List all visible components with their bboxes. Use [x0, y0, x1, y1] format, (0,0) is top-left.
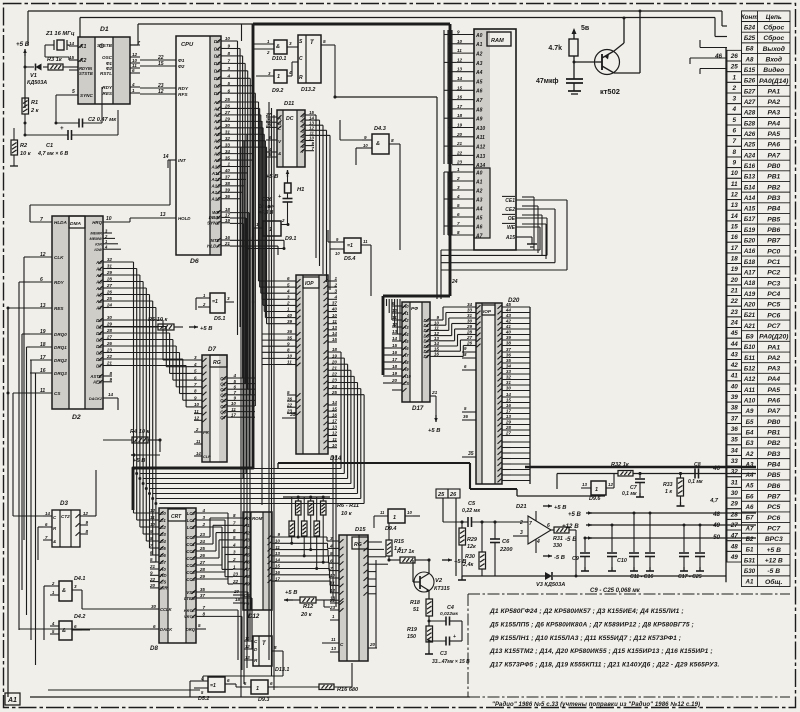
svg-text:31: 31 — [506, 380, 512, 385]
svg-text:29: 29 — [730, 501, 739, 508]
node junction y97 — [334, 96, 337, 99]
IC D2 DMA controller — [52, 216, 103, 409]
svg-text:РВ5: РВ5 — [767, 472, 780, 479]
svg-text:R2: R2 — [20, 143, 28, 149]
svg-text:РА0(Д20): РА0(Д20) — [759, 334, 789, 341]
thick bus to D17 — [383, 295, 450, 298]
svg-text:4: 4 — [226, 73, 230, 78]
flip-flop D13.1 — [253, 636, 272, 666]
wire D5.4 inputs — [328, 241, 335, 243]
svg-text:КТ315: КТ315 — [434, 586, 451, 592]
svg-text:39: 39 — [731, 394, 739, 401]
svg-text:36: 36 — [463, 414, 468, 419]
svg-text:42: 42 — [505, 319, 512, 324]
svg-text:28: 28 — [505, 425, 512, 430]
flip-flop D13.2 — [298, 35, 321, 83]
D20 to bus stubs — [511, 306, 530, 308]
svg-text:Д5 К155ЛП5 ; Д6 КР580ИК80А: Д5 К155ЛП5 ; Д6 КР580ИК80А ; Д7 К589ИР12… — [489, 621, 694, 628]
svg-text:5: 5 — [227, 81, 230, 86]
svg-text:T: T — [262, 641, 267, 647]
svg-text:А20: А20 — [743, 302, 756, 309]
svg-text:23: 23 — [331, 378, 338, 383]
IC D3 counter — [52, 510, 80, 547]
bus D14 portB to D8 horizontals — [137, 468, 341, 470]
svg-text:А8: А8 — [745, 56, 754, 63]
svg-text:12: 12 — [158, 89, 164, 95]
svg-text:А5: А5 — [745, 483, 754, 490]
svg-text:6: 6 — [233, 384, 236, 389]
svg-text:36: 36 — [731, 426, 739, 433]
svg-text:Выход: Выход — [763, 45, 785, 53]
svg-text:А6: А6 — [745, 504, 754, 511]
svg-text:D1: D1 — [100, 26, 109, 33]
svg-text:+12 В: +12 В — [765, 557, 783, 564]
svg-text:12: 12 — [731, 192, 739, 199]
D2 DACK2 pin — [103, 397, 118, 399]
svg-text:Б21: Б21 — [744, 312, 756, 319]
wire top rail 2 — [80, 17, 715, 19]
svg-text:ROM: ROM — [252, 516, 263, 521]
svg-text:13: 13 — [275, 551, 281, 556]
svg-text:HOLD: HOLD — [178, 216, 191, 221]
svg-text:А21: А21 — [743, 323, 756, 330]
svg-text:39: 39 — [225, 188, 231, 193]
svg-text:CE2: CE2 — [505, 207, 515, 213]
svg-text:5: 5 — [287, 282, 290, 287]
svg-text:+5 В: +5 В — [767, 547, 781, 554]
D7 extra pins — [194, 431, 202, 433]
svg-text:А7: А7 — [745, 525, 754, 532]
svg-text:RSTL: RSTL — [100, 71, 112, 76]
D20 right pins portC — [502, 396, 511, 398]
svg-text:51: 51 — [413, 607, 419, 613]
svg-text:24: 24 — [106, 303, 113, 308]
parts list box — [468, 594, 790, 697]
svg-text:Видео: Видео — [763, 66, 784, 74]
svg-text:21: 21 — [331, 366, 338, 371]
wire gates chain bottom — [225, 683, 236, 685]
capacitor 47uF — [566, 78, 583, 80]
bus D17 to D20 wires — [439, 319, 443, 321]
capacitor C1 — [67, 130, 69, 140]
svg-text:РС5: РС5 — [767, 504, 780, 511]
svg-text:Б16: Б16 — [744, 163, 756, 170]
bus CPU data verticals — [230, 40, 238, 42]
svg-text:11: 11 — [332, 437, 337, 442]
svg-text:РВ2: РВ2 — [767, 184, 780, 191]
wire D4.2 to D8 — [72, 629, 90, 631]
svg-text:Б13: Б13 — [744, 174, 756, 181]
wires D14 to D15 verticals — [332, 455, 334, 600]
wire DACK2 route — [117, 398, 119, 410]
svg-text:35: 35 — [290, 412, 296, 418]
resistor R5 — [158, 324, 174, 330]
svg-text:Б27: Б27 — [744, 88, 756, 95]
svg-text:D4.1: D4.1 — [74, 576, 85, 582]
IC D12 character ROM — [243, 512, 272, 610]
svg-text:43: 43 — [730, 351, 739, 358]
svg-text:D15: D15 — [355, 527, 366, 533]
decoder D11 — [277, 110, 305, 167]
svg-text:R18: R18 — [410, 600, 420, 606]
svg-text:40: 40 — [331, 307, 338, 312]
svg-text:30: 30 — [506, 386, 512, 391]
svg-text:22: 22 — [331, 372, 338, 377]
resistor R3 — [48, 64, 63, 70]
svg-text:16: 16 — [392, 350, 398, 355]
svg-text:РА7: РА7 — [767, 408, 780, 415]
svg-text:42: 42 — [730, 362, 739, 369]
capacitor C10 — [611, 525, 613, 552]
svg-text:14: 14 — [332, 331, 338, 336]
svg-text:Б24: Б24 — [744, 24, 756, 31]
svg-text:18: 18 — [40, 342, 46, 348]
svg-text:РА6: РА6 — [767, 398, 780, 405]
gate D5.1 — [210, 293, 225, 313]
D17 left pins — [392, 305, 402, 307]
svg-text:3: 3 — [233, 550, 236, 555]
bus D17 left lower feed — [383, 347, 392, 349]
svg-text:R16 680: R16 680 — [337, 687, 359, 693]
svg-text:1: 1 — [334, 276, 337, 281]
svg-text:D13.1: D13.1 — [275, 667, 289, 673]
svg-text:РА5: РА5 — [767, 131, 780, 138]
svg-text:А2: А2 — [745, 451, 754, 458]
svg-text:S: S — [299, 39, 303, 45]
resistor R19 — [426, 626, 433, 642]
svg-text:10 к: 10 к — [341, 511, 353, 517]
resistor R31 — [554, 527, 569, 533]
svg-text:C10: C10 — [617, 558, 627, 564]
svg-text:8: 8 — [233, 513, 236, 518]
svg-text:11: 11 — [275, 545, 280, 550]
svg-text:15: 15 — [69, 55, 75, 60]
svg-text:14: 14 — [196, 451, 201, 456]
D2 right pins HRQ — [103, 221, 130, 223]
svg-text:RDY: RDY — [178, 86, 189, 92]
bottom rail 2 — [48, 689, 200, 691]
svg-text:31: 31 — [107, 264, 113, 269]
svg-text:1: 1 — [393, 515, 396, 521]
wire D9.4 output down — [413, 515, 420, 517]
svg-text:330: 330 — [553, 543, 562, 549]
svg-text:39: 39 — [287, 319, 293, 324]
svg-text:R15: R15 — [394, 539, 405, 545]
svg-text:22: 22 — [106, 354, 113, 359]
svg-text:35: 35 — [506, 358, 512, 363]
svg-text:5: 5 — [464, 406, 467, 411]
capacitor C6 — [490, 538, 500, 540]
svg-text:1: 1 — [595, 487, 598, 493]
wire D8 DACK from left — [19, 628, 150, 630]
svg-text:36: 36 — [287, 396, 293, 401]
svg-text:38: 38 — [506, 341, 512, 346]
bus D14 ctrl feed horizontals — [262, 333, 287, 335]
svg-text:3: 3 — [268, 71, 271, 76]
left rail verticals — [7, 308, 9, 697]
D12 CS pin — [233, 594, 243, 596]
svg-text:РА1: РА1 — [767, 88, 780, 95]
capacitors C17-C25 — [683, 525, 685, 552]
svg-text:2: 2 — [195, 427, 199, 432]
svg-text:36: 36 — [225, 194, 231, 199]
D14 left pins data — [287, 280, 296, 282]
svg-text:C3: C3 — [440, 651, 447, 657]
svg-text:1: 1 — [732, 74, 736, 81]
bus RAM lower feed — [444, 171, 456, 173]
svg-text:С9 - С25 0,068 мк: С9 - С25 0,068 мк — [590, 588, 641, 594]
svg-text:РВ3: РВ3 — [767, 195, 780, 202]
svg-text:+: + — [60, 126, 64, 132]
power +5V R17 — [442, 559, 452, 561]
diode V3 — [545, 572, 552, 580]
svg-text:D5.4: D5.4 — [344, 256, 355, 262]
svg-text:6: 6 — [227, 678, 230, 683]
svg-text:45: 45 — [505, 302, 512, 307]
svg-text:7: 7 — [227, 59, 230, 64]
svg-text:3: 3 — [227, 66, 230, 71]
svg-text:13: 13 — [332, 325, 338, 330]
svg-text:11: 11 — [380, 510, 385, 515]
svg-text:РА4: РА4 — [767, 376, 780, 383]
svg-text:4,7 мк × 6 В: 4,7 мк × 6 В — [37, 151, 68, 157]
svg-text:20: 20 — [149, 583, 156, 588]
CPU left pins — [140, 59, 176, 61]
svg-text:0,1 мк: 0,1 мк — [622, 491, 637, 497]
svg-text:12к: 12к — [467, 544, 476, 550]
D20 lower pins — [502, 441, 511, 443]
pullup resistor taps — [297, 515, 299, 537]
svg-text:C9: C9 — [572, 556, 579, 562]
svg-text:9: 9 — [464, 346, 467, 351]
RAM CE nested wires — [516, 199, 567, 201]
D2 A0-A7 pins — [103, 261, 112, 263]
svg-text:РВ7: РВ7 — [767, 494, 780, 501]
svg-text:РА0(Д14): РА0(Д14) — [759, 78, 789, 85]
svg-text:11: 11 — [457, 48, 462, 53]
svg-text:+5 В: +5 В — [568, 512, 582, 518]
svg-text:29: 29 — [106, 270, 113, 275]
svg-text:25: 25 — [106, 296, 113, 301]
svg-text:C: C — [254, 639, 258, 644]
svg-text:12: 12 — [245, 644, 250, 649]
svg-text:2 к: 2 к — [30, 108, 40, 114]
svg-text:+5 В: +5 В — [285, 590, 297, 596]
svg-text:23: 23 — [329, 605, 336, 610]
svg-text:7: 7 — [732, 138, 736, 145]
svg-text:12: 12 — [40, 252, 46, 258]
svg-text:D10.1: D10.1 — [272, 56, 286, 62]
svg-text:30: 30 — [467, 319, 473, 324]
bus D2 to D8 verticals — [112, 261, 134, 263]
gate D4.3 — [372, 134, 389, 154]
svg-text:17: 17 — [392, 357, 398, 362]
svg-text:6: 6 — [233, 528, 236, 533]
svg-text:10: 10 — [457, 39, 463, 44]
svg-text:А12: А12 — [743, 376, 756, 383]
connector pin number boxes — [727, 50, 742, 562]
svg-text:РС1: РС1 — [767, 259, 780, 266]
svg-text:2: 2 — [731, 85, 736, 92]
svg-text:35: 35 — [287, 335, 293, 340]
svg-text:37: 37 — [332, 301, 338, 306]
svg-text:36: 36 — [287, 329, 293, 334]
svg-text:РВ5: РВ5 — [767, 216, 780, 223]
svg-text:R17 1к: R17 1к — [397, 549, 414, 555]
svg-text:6: 6 — [457, 212, 460, 217]
svg-text:17: 17 — [231, 412, 237, 417]
wire video 25 — [442, 498, 444, 522]
svg-text:С17 - С25: С17 - С25 — [678, 574, 702, 580]
svg-text:33: 33 — [467, 308, 473, 313]
wire D9.4 input from D15 — [374, 515, 379, 517]
svg-text:РС5: РС5 — [767, 302, 780, 309]
capacitor C3 — [445, 637, 447, 646]
svg-text:1 к: 1 к — [665, 489, 672, 495]
svg-text:35: 35 — [731, 437, 739, 444]
svg-text:33: 33 — [506, 369, 512, 374]
svg-text:24: 24 — [730, 319, 739, 326]
svg-text:А26: А26 — [743, 131, 756, 138]
heavy wire row 33 area — [278, 462, 470, 464]
svg-text:38: 38 — [225, 181, 231, 186]
svg-text:R: R — [53, 526, 57, 531]
svg-text:4: 4 — [536, 539, 540, 545]
bus CPU address verticals — [230, 101, 259, 103]
svg-text:Д9 К155ЛН1 ; Д10 К155ЛА3 ;: Д9 К155ЛН1 ; Д10 К155ЛА3 ; Д11 К555ИД7 ;… — [489, 635, 681, 642]
svg-text:48: 48 — [712, 511, 720, 518]
capacitor C8 — [694, 469, 696, 479]
svg-text:C6: C6 — [502, 539, 510, 545]
svg-text:25: 25 — [331, 390, 338, 395]
svg-text:14: 14 — [69, 41, 75, 46]
svg-text:+5 В: +5 В — [554, 505, 566, 511]
svg-text:6: 6 — [547, 523, 550, 529]
power +5V R12 — [284, 599, 293, 601]
svg-text:Б11: Б11 — [744, 355, 755, 362]
svg-text:14: 14 — [108, 392, 114, 397]
svg-text:22: 22 — [456, 150, 463, 155]
svg-text:+5 В: +5 В — [428, 428, 440, 434]
svg-text:А18: А18 — [743, 280, 756, 287]
svg-text:11: 11 — [194, 409, 199, 414]
wire D2 RES left — [8, 307, 30, 309]
capacitor C9 — [584, 538, 586, 552]
gate D4.2 — [59, 621, 72, 640]
svg-text:26: 26 — [106, 290, 113, 295]
svg-text:1: 1 — [203, 293, 206, 298]
svg-text:3: 3 — [74, 584, 77, 589]
svg-text:2: 2 — [51, 581, 55, 586]
wires CPU INTE HLDA — [230, 239, 284, 241]
resistor R30 — [479, 552, 486, 569]
svg-text:16: 16 — [275, 570, 281, 575]
svg-text:-5 В: -5 В — [554, 555, 565, 561]
svg-text:РА3: РА3 — [767, 110, 780, 117]
svg-text:2: 2 — [201, 522, 205, 527]
resistor R33 — [677, 478, 684, 496]
svg-text:4: 4 — [456, 194, 460, 199]
svg-text:28: 28 — [106, 277, 113, 282]
wire D3 inputs left — [38, 526, 43, 528]
thick bus bottom-left leg — [133, 467, 253, 470]
svg-text:5: 5 — [198, 623, 201, 628]
wire D8 CCLK from left — [82, 608, 150, 610]
svg-text:Б15: Б15 — [744, 67, 756, 74]
crystal Z1 — [57, 40, 64, 50]
svg-text:9: 9 — [732, 160, 736, 167]
svg-text:H1: H1 — [297, 187, 304, 193]
svg-text:18: 18 — [392, 364, 398, 369]
svg-text:49: 49 — [730, 554, 739, 561]
svg-text:32: 32 — [731, 469, 739, 476]
svg-text:20 к: 20 к — [300, 612, 313, 618]
svg-text:V3 КД503А: V3 КД503А — [536, 582, 565, 588]
D12 address pins — [233, 517, 243, 519]
IC D7 register — [202, 355, 227, 462]
bus central long verticals — [268, 102, 270, 660]
capacitor C2 — [78, 119, 80, 128]
svg-text:21: 21 — [456, 141, 463, 146]
svg-text:1: 1 — [233, 564, 236, 569]
D14 right pins portB — [328, 351, 337, 353]
svg-text:36: 36 — [506, 353, 512, 358]
svg-text:22: 22 — [730, 298, 739, 305]
svg-text:2: 2 — [456, 176, 460, 181]
svg-text:4,7: 4,7 — [709, 498, 719, 504]
thick bus line top — [253, 23, 450, 26]
svg-text:Б19: Б19 — [744, 227, 756, 234]
D12 output pins — [272, 536, 280, 538]
svg-text:2: 2 — [281, 218, 285, 223]
svg-text:22: 22 — [329, 598, 336, 603]
D14 left pins lower — [287, 394, 296, 396]
svg-text:РВ4: РВ4 — [767, 206, 780, 213]
svg-text:24: 24 — [331, 384, 338, 389]
power rail -5V — [586, 537, 592, 539]
svg-text:1: 1 — [287, 307, 290, 312]
svg-text:40: 40 — [505, 330, 512, 335]
svg-text:DMA: DMA — [70, 221, 81, 227]
wire Vyhod row3 — [700, 47, 727, 49]
svg-text:26: 26 — [730, 53, 739, 60]
svg-text:РС6: РС6 — [767, 312, 780, 319]
svg-text:13: 13 — [160, 212, 166, 218]
svg-text:15: 15 — [275, 564, 281, 569]
svg-text:R3 1к: R3 1к — [47, 57, 63, 63]
svg-text:IOP: IOP — [305, 281, 314, 287]
svg-text:2: 2 — [266, 50, 270, 55]
svg-text:5: 5 — [194, 369, 197, 374]
svg-text:РС7: РС7 — [767, 525, 780, 532]
svg-text:РА5: РА5 — [767, 387, 780, 394]
svg-text:РА4: РА4 — [767, 120, 780, 127]
svg-text:5: 5 — [233, 535, 236, 540]
resistor R4 — [132, 437, 148, 443]
bus D2 data to D7 — [112, 319, 163, 321]
D7 left pins — [194, 359, 202, 361]
wire Vhod row4 — [690, 57, 727, 59]
diode V1 — [36, 64, 42, 71]
svg-text:8: 8 — [194, 389, 197, 394]
svg-text:А24: А24 — [743, 152, 756, 159]
svg-text:12: 12 — [608, 482, 613, 487]
power +5V R4 — [131, 454, 140, 456]
svg-text:44: 44 — [505, 308, 512, 313]
svg-text:14: 14 — [392, 336, 398, 341]
power rail +12V — [586, 524, 592, 526]
svg-text:Д1 КР580ГФ24 ; Д2 КР580ИК57: Д1 КР580ГФ24 ; Д2 КР580ИК57 ; Д3 К155ИЕ4… — [489, 608, 684, 615]
